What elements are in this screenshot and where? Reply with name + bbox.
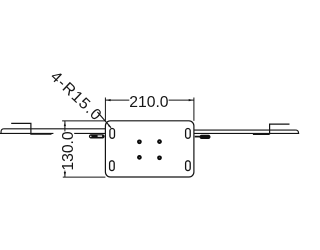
svg-text:210.0: 210.0	[129, 94, 169, 111]
dimension 130.0 extension line bottom	[63, 176, 106, 178]
bar (long rail, side view)	[0, 129, 299, 134]
slot top-left	[110, 129, 115, 139]
dimension 130.0 arrowhead bottom	[64, 172, 66, 177]
leader line 4-R15.0	[97, 112, 111, 128]
right pin	[195, 135, 211, 139]
hole top-right	[157, 139, 162, 144]
plate (210 x 130 mounting plate)	[105, 121, 193, 177]
dimension 210.0 line	[105, 99, 193, 101]
leader arrowhead	[108, 125, 111, 129]
slot bottom-right	[186, 161, 191, 171]
left hook	[11, 123, 51, 134]
left pin	[89, 134, 105, 138]
dimension 210.0 extension line right	[193, 98, 195, 121]
hole bottom-right	[157, 155, 162, 160]
dimension 210.0 arrowhead right	[189, 99, 194, 101]
dimension 210.0 arrowhead left	[106, 99, 111, 101]
dimension 130.0 line	[64, 121, 66, 177]
dimension 210.0 extension line left	[104, 98, 106, 121]
slot bottom-left	[110, 161, 115, 171]
text background mask for 130.0	[53, 131, 74, 170]
dimension 130.0 arrowhead top	[64, 121, 66, 126]
slot top-right	[186, 129, 191, 139]
hole top-left	[137, 139, 142, 144]
hole bottom-left	[137, 155, 142, 160]
right hook	[253, 124, 290, 134]
dimension 130.0 extension line top	[62, 120, 105, 122]
svg-text:130.0: 130.0	[60, 131, 77, 171]
